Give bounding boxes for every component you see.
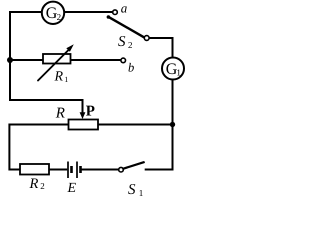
- terminal a: [113, 10, 118, 15]
- switch S1 pivot: [119, 167, 124, 172]
- svg-text:P: P: [86, 104, 95, 120]
- wire row 4 left (R body to lower-left vertical, down, bottom wire to battery): [9, 125, 68, 170]
- svg-text:a: a: [121, 0, 128, 15]
- svg-text:1: 1: [64, 75, 68, 84]
- galvanometer G2: [42, 2, 64, 24]
- svg-text:E: E: [67, 181, 77, 196]
- svg-text:1: 1: [176, 68, 181, 78]
- battery E cell 2 long plate: [76, 162, 78, 179]
- switch S2 blade pivot dot: [107, 15, 111, 19]
- svg-text:b: b: [128, 61, 134, 75]
- svg-text:R: R: [55, 105, 65, 121]
- switch S2 blade: [108, 17, 144, 38]
- svg-text:S: S: [128, 182, 136, 198]
- wire top (from top-left corner to terminal a): [9, 11, 113, 13]
- resistor R2 body: [20, 164, 49, 175]
- galvanometer G1: [162, 58, 184, 80]
- wire row 4 right (R body to right vertical junction): [98, 124, 173, 126]
- node junction right: [170, 122, 175, 127]
- terminal b: [121, 58, 126, 63]
- wire row 2 (junction to terminal b through R1): [10, 59, 122, 61]
- battery E cell 1 short plate: [70, 166, 73, 173]
- svg-text:R: R: [29, 176, 39, 192]
- switch S2 fixed contact: [144, 36, 149, 41]
- switch S1 blade: [123, 162, 144, 169]
- battery E cell 1 long plate: [67, 162, 69, 179]
- rheostat R1 arrow: [38, 49, 70, 81]
- wire S2 to right vertical and down to bottom-right corner: [145, 38, 173, 170]
- svg-text:2: 2: [40, 181, 45, 191]
- node junction left: [7, 57, 13, 63]
- svg-text:2: 2: [128, 40, 133, 50]
- wire bottom (battery to switch S1 pivot): [82, 169, 121, 171]
- svg-text:2: 2: [57, 12, 62, 22]
- wire left vertical (top corner down to row 3): [9, 11, 11, 101]
- rheostat R1 body: [43, 54, 71, 64]
- battery E cell 2 short plate: [79, 166, 82, 173]
- potentiometer R body: [69, 120, 99, 130]
- svg-text:S: S: [118, 34, 126, 50]
- svg-text:R: R: [54, 70, 64, 85]
- potentiometer slider arrowhead P: [80, 112, 86, 119]
- svg-text:1: 1: [139, 188, 144, 198]
- wire row 3 (left vertical to slider arm of R): [10, 100, 83, 114]
